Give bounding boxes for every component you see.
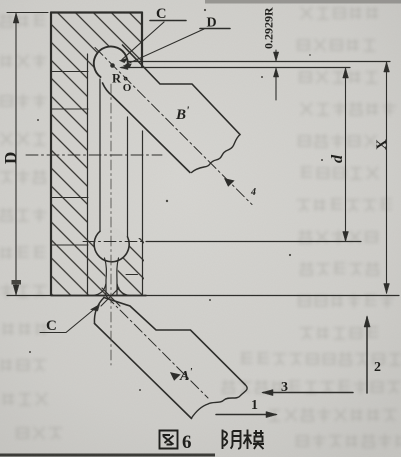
label C top underline (150, 20, 186, 22)
division line y197 (51, 197, 88, 199)
arrow 1 line (216, 414, 276, 416)
die block right edge upper (141, 13, 143, 67)
leader C bottom arrowhead (91, 305, 100, 312)
caption glyph yin (223, 430, 241, 450)
ledge line right of bulge (126, 274, 138, 276)
die block bottom edge (51, 295, 146, 297)
horizontal centerline bulge (83, 241, 146, 243)
bar B' motion arrowhead (225, 179, 235, 187)
division line y109 (51, 108, 88, 110)
leader C top arrowhead (120, 58, 128, 63)
counterbore wall left (87, 54, 89, 294)
dimension D line (15, 14, 17, 295)
leader C bottom (40, 306, 98, 333)
exit throat wall left (105, 258, 107, 295)
bar B' centerline (95, 48, 252, 205)
channel corner whiteout (122, 43, 147, 68)
die block top edge (51, 11, 142, 13)
cavity bulb whiteout (94, 47, 128, 81)
bore wall right (127, 117, 129, 237)
leader D top (126, 29, 204, 65)
hatching die block top band (88, 13, 142, 68)
dimension D extension top (7, 12, 48, 14)
bar A' upper edge (104, 298, 245, 385)
dimension 0.2929R lower witness (275, 69, 277, 101)
arrow 2 head (364, 316, 370, 327)
arrow 1 head (266, 412, 277, 418)
ref line top tangent (128, 61, 390, 63)
vertical centerline (110, 84, 112, 365)
arrow 3 head (262, 390, 273, 396)
dimension 0.2929R upper witness (275, 50, 277, 61)
ref line arrowhead at bulb (120, 66, 128, 70)
hatching die block bottom section (88, 238, 144, 295)
bore wall left (99, 79, 101, 232)
exit tip cross line 2 (101, 288, 119, 306)
exit fillet left (93, 284, 106, 296)
caption glyph tu (figure) (160, 431, 178, 449)
dimension 0.2929R lower arrow (273, 68, 278, 77)
bottom bulge whiteout (94, 228, 129, 263)
dimension D arrow bottom (13, 285, 19, 295)
dimension X arrow bottom (384, 284, 390, 294)
bulb center dot (110, 63, 115, 68)
dimension X line (386, 62, 388, 293)
cavity bulb R (94, 46, 128, 77)
bottom bulge (94, 231, 129, 262)
bar A' lower edge (95, 324, 192, 419)
dimension X arrow top (384, 62, 390, 72)
ref line bulge level (146, 241, 361, 243)
exit throat whiteout (104, 250, 119, 295)
dimension D tick (12, 280, 22, 285)
leader D top arrowhead (124, 64, 132, 68)
bottom reference line (7, 295, 399, 297)
dimension d arrow bottom (343, 232, 349, 242)
scan speckles (29, 9, 323, 391)
bar A' tip round (94, 298, 104, 324)
die block left edge (50, 13, 52, 296)
dimension d line (345, 68, 347, 241)
label D top underline (200, 28, 230, 30)
bar A' break line (192, 385, 248, 419)
exit throat wall right (117, 258, 119, 295)
caption glyph mo (244, 430, 265, 450)
division line y71 (51, 71, 88, 73)
bar A' motion arrowhead (171, 373, 181, 381)
division line y245 (51, 244, 88, 246)
exit fillet right (117, 284, 129, 296)
bar B' break line (192, 135, 241, 173)
arrow 2 line (366, 317, 368, 393)
arrow 3 line (263, 392, 353, 394)
dimension 0.2929R upper arrow (273, 52, 278, 61)
horizontal centerline block (26, 154, 162, 156)
label R degree circle (124, 77, 127, 80)
bar A' centerline (106, 296, 208, 398)
scan artifact top right strip (205, 0, 401, 4)
hatching die block left column (51, 13, 88, 296)
scan artifact bottom line (0, 454, 215, 457)
dimension D arrow top (13, 13, 19, 23)
bar B' upper edge (123, 45, 241, 135)
leader C top (122, 22, 164, 60)
bar B' lower edge (103, 83, 191, 173)
dimension d arrow top (343, 68, 349, 78)
exit tip cross line 1 (102, 288, 120, 306)
block inner vertical right (142, 131, 144, 294)
ref line sphere level (121, 67, 350, 69)
